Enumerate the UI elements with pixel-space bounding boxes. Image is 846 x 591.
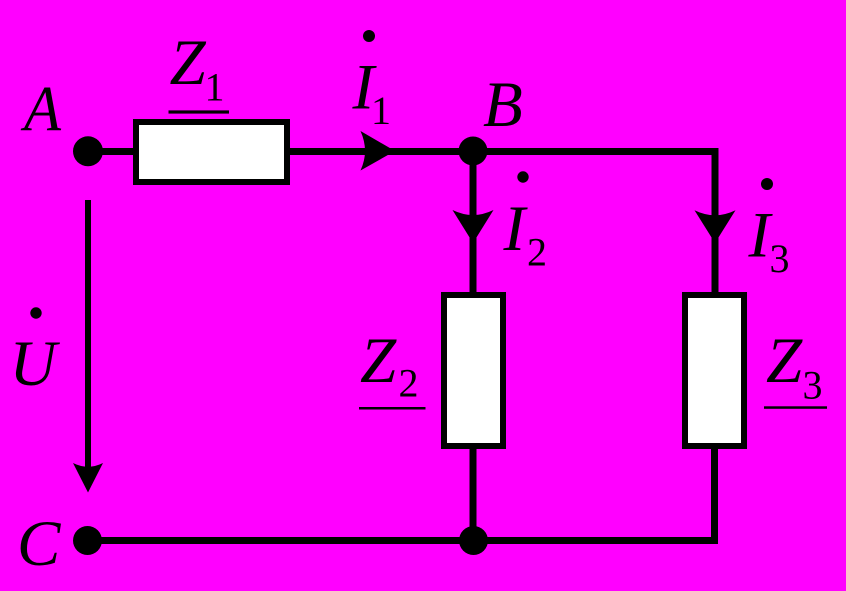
wire Z2 bottom to bottom rail <box>470 449 477 541</box>
svg-text:3: 3 <box>770 236 790 281</box>
svg-text:Z: Z <box>766 325 803 397</box>
svg-text:C: C <box>17 508 61 580</box>
dot over I2 <box>517 171 528 182</box>
label I2 <box>503 193 548 275</box>
label Z1 <box>170 27 225 110</box>
voltage arrow U line <box>85 200 91 470</box>
svg-text:3: 3 <box>803 363 823 408</box>
label Z3 <box>766 325 823 408</box>
label I1 <box>352 52 392 134</box>
node A junction dot <box>73 136 103 166</box>
current arrow I2 head <box>453 210 494 243</box>
underline of Z2 <box>359 407 426 410</box>
node B junction dot <box>459 137 488 166</box>
svg-text:Z: Z <box>170 27 207 99</box>
impedance Z1 box <box>136 122 287 182</box>
svg-text:1: 1 <box>371 88 391 133</box>
svg-text:A: A <box>20 74 61 146</box>
wire bottom rail C to right corner up to Z3 bottom <box>88 449 715 541</box>
svg-text:1: 1 <box>205 65 225 110</box>
dot over I3 <box>761 178 773 190</box>
voltage arrow U head <box>73 463 103 493</box>
underline of Z3 <box>764 406 827 409</box>
svg-text:I: I <box>503 193 529 265</box>
current arrow I1 head <box>361 131 396 171</box>
wire top rail A to B to right corner down to Z3 <box>88 152 715 293</box>
svg-text:2: 2 <box>527 230 547 275</box>
bottom junction dot <box>459 526 488 555</box>
impedance Z2 box <box>444 295 503 446</box>
dot over I1 <box>363 30 375 42</box>
svg-text:B: B <box>483 69 523 141</box>
svg-text:U: U <box>10 328 61 400</box>
current arrow I3 head <box>695 210 736 243</box>
impedance Z3 box <box>685 295 744 446</box>
label I3 <box>748 200 790 282</box>
underline of Z1 <box>169 110 230 113</box>
wire B down to Z2 top <box>470 152 477 293</box>
label Z2 <box>360 325 419 406</box>
svg-text:2: 2 <box>399 361 419 406</box>
node C junction dot <box>73 526 102 555</box>
dot over U <box>30 307 41 318</box>
svg-text:Z: Z <box>360 325 397 397</box>
